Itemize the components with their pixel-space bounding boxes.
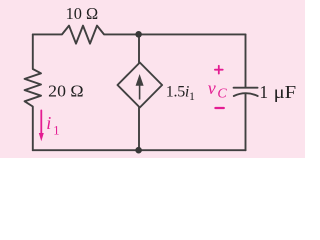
svg-text:μF: μF xyxy=(274,82,297,102)
svg-text:1: 1 xyxy=(53,124,59,138)
svg-text:10 Ω: 10 Ω xyxy=(66,4,99,23)
svg-text:C: C xyxy=(217,86,227,101)
svg-text:1: 1 xyxy=(259,82,268,102)
svg-text:v: v xyxy=(208,78,216,98)
svg-text:20 Ω: 20 Ω xyxy=(48,81,83,100)
svg-text:i: i xyxy=(46,113,51,133)
